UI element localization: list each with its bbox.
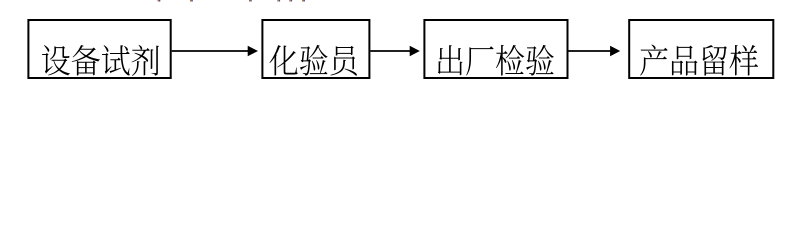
flow arrow 3 <box>569 50 611 52</box>
flow arrow 2 <box>370 50 410 52</box>
process box 化验员 <box>262 20 369 78</box>
process box 设备试剂 <box>28 20 170 78</box>
label text 设备试剂 <box>42 45 159 76</box>
cut-off text row remnants <box>158 0 159 2</box>
process box 产品留样 <box>629 20 773 78</box>
flow arrow 1 <box>172 50 249 52</box>
label text 化验员 <box>269 45 357 76</box>
process box 出厂检验 <box>424 20 567 78</box>
label text 出厂检验 <box>438 45 554 76</box>
label text 产品留样 <box>640 45 758 76</box>
